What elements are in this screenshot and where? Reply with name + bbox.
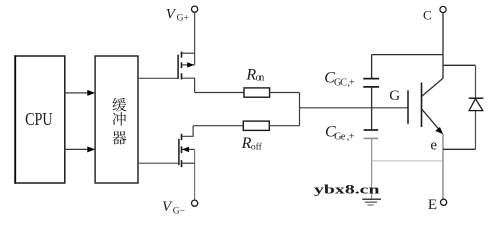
svg-text:G−: G− — [173, 207, 185, 217]
svg-text:CPU: CPU — [25, 109, 53, 129]
wire CPU to buffer (upper) with arrow — [65, 92, 89, 94]
buffer label 冲 — [113, 112, 126, 126]
diode D1 branch vertical — [475, 65, 477, 98]
wire CPU to buffer (lower) with arrow — [65, 148, 89, 150]
Q2 body/source vertical down to VG- — [194, 149, 196, 200]
IGBT V1 gate plate — [407, 90, 409, 124]
Q2 source stub — [182, 162, 195, 164]
svg-text:V: V — [162, 199, 173, 215]
wire Roff to junction — [269, 125, 299, 127]
wire emitter to diode bottom — [443, 148, 476, 150]
IGBT emitter diagonal with arrow — [422, 109, 441, 131]
buffer label 缓 — [113, 98, 127, 112]
wire Ron to junction — [270, 92, 300, 94]
Q2 channel segments — [181, 134, 183, 140]
buffer box U1 — [95, 56, 138, 183]
wire VG+ down to Q1 drain/body — [194, 12, 196, 65]
ground symbol — [362, 198, 381, 200]
wire Q1 source to Ron — [195, 92, 244, 94]
transistor Q2 (lower NMOS) gate lead wire from buffer — [138, 162, 179, 164]
resistor Roff box — [243, 121, 269, 130]
svg-text:Ge ,+: Ge ,+ — [334, 132, 355, 143]
svg-text:e: e — [430, 137, 437, 153]
CGC,+ bottom stub to gate wire — [371, 87, 373, 108]
svg-text:off: off — [251, 141, 263, 152]
terminal E circle — [441, 199, 447, 205]
collector wire down — [442, 13, 444, 79]
Q1 source stub — [182, 78, 195, 92]
diode D1 cathode bar — [469, 97, 484, 99]
resistor Ron box — [244, 88, 270, 97]
CPU box — [15, 56, 64, 183]
terminal VG+ circle — [192, 6, 198, 12]
wire Q2 drain to Roff — [193, 125, 243, 127]
diode D1 triangle — [469, 99, 483, 111]
wire top to collector (CGC link) — [372, 54, 443, 56]
svg-text:ybx8.cn: ybx8.cn — [314, 181, 381, 196]
junction bar node — [299, 93, 301, 126]
svg-text:G+: G+ — [177, 14, 189, 24]
Q2 drain stub up to Roff wire — [182, 126, 194, 137]
Q1 channel segments — [181, 52, 183, 58]
IGBT collector diagonal — [422, 78, 444, 96]
svg-text:G: G — [389, 88, 400, 104]
CGe,+ plates — [364, 129, 379, 131]
faint wire ground branch to emitter — [372, 160, 443, 162]
Q1 body stub with arrow — [182, 64, 195, 66]
Q2 body stub with arrow — [182, 148, 195, 150]
terminal C circle — [440, 6, 446, 12]
gate wire to IGBT — [300, 107, 408, 109]
IGBT body bar — [421, 83, 423, 128]
Q2 gate plate — [178, 139, 180, 165]
buffer label 器 — [112, 131, 126, 144]
CGC,+ plates — [363, 78, 379, 80]
Q1 drain stub — [182, 52, 195, 54]
svg-text:E: E — [428, 197, 437, 213]
terminal VG- circle — [192, 200, 198, 206]
capacitor CGC,+ top stub — [371, 55, 373, 79]
svg-text:C: C — [423, 7, 432, 22]
transistor Q1 (upper PMOS) gate lead wire from buffer — [138, 77, 178, 79]
Q1 gate plate — [177, 55, 179, 79]
svg-text:GC ,+: GC ,+ — [334, 77, 355, 88]
svg-text:V: V — [166, 7, 177, 23]
CGe,+ bottom stub down to ground — [371, 138, 373, 198]
svg-text:on: on — [256, 72, 265, 83]
emitter wire down — [442, 134, 444, 199]
capacitor CGe,+ top stub — [371, 108, 373, 130]
wire collector to diode branch — [443, 64, 476, 66]
